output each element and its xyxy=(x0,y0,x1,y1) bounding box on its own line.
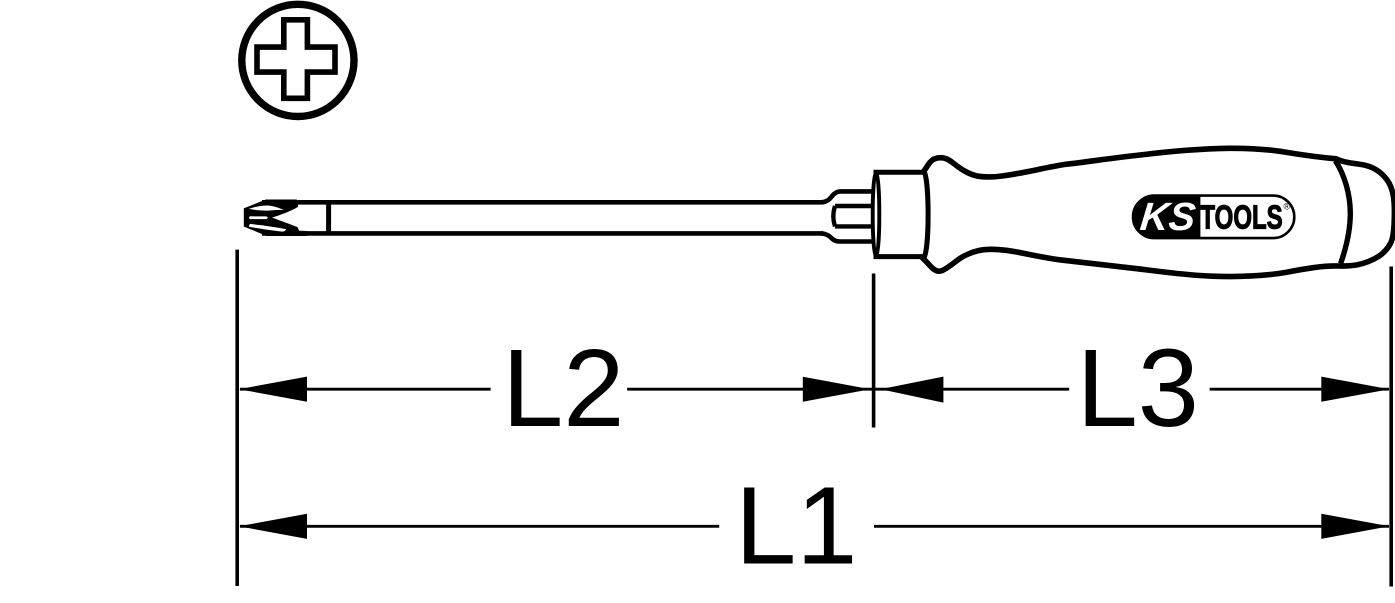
L3 left arrow xyxy=(880,377,943,403)
tip middle white slit xyxy=(249,216,268,219)
hex bolster flare bottom xyxy=(822,233,878,241)
phillips drive symbol circle xyxy=(242,4,354,116)
KS TOOLS logo capsule xyxy=(1133,196,1294,239)
L1 dimension line right segment xyxy=(874,525,1389,528)
logo black left half xyxy=(1133,196,1200,239)
svg-text:®: ® xyxy=(1284,202,1291,212)
end cap separator arc xyxy=(1336,161,1351,264)
svg-text:KS: KS xyxy=(1138,195,1197,239)
svg-text:L3: L3 xyxy=(1077,327,1199,450)
phillips tip silhouette xyxy=(244,200,307,236)
svg-text:L1: L1 xyxy=(735,464,857,587)
L2/L3 dimension line middle segment xyxy=(627,388,1069,391)
L1 right arrow xyxy=(1321,514,1389,539)
hex bolster flare top xyxy=(822,191,878,202)
L2 right arrow xyxy=(803,377,870,402)
L1 left arrow xyxy=(239,514,307,539)
tip zone tick xyxy=(326,201,331,235)
svg-text:L2: L2 xyxy=(502,327,624,450)
L3 dimension line right segment xyxy=(1210,388,1389,391)
tip upper white flute window xyxy=(249,205,284,210)
screwdriver shaft top line xyxy=(262,200,823,205)
handle outline xyxy=(918,148,1394,276)
L1 dimension line left segment xyxy=(240,525,719,528)
ferrule collar body xyxy=(876,172,928,256)
phillips cross outline xyxy=(257,20,335,99)
extension line middle xyxy=(872,274,876,428)
tip lower white flute window xyxy=(249,224,286,232)
screwdriver shaft bottom line xyxy=(262,231,823,236)
extension line left xyxy=(235,250,239,586)
L2 dimension line left segment xyxy=(240,388,491,391)
hex left edge arc xyxy=(833,206,835,226)
logo KS script xyxy=(1138,195,1197,239)
ferrule collar left ellipse xyxy=(873,172,880,256)
hex facet line lower xyxy=(835,224,877,228)
L3 right arrow xyxy=(1321,377,1389,402)
extension line right xyxy=(1389,267,1393,587)
L2 left arrow xyxy=(239,377,307,402)
hex facet line upper xyxy=(835,204,877,208)
svg-text:TOOLS: TOOLS xyxy=(1200,199,1282,236)
